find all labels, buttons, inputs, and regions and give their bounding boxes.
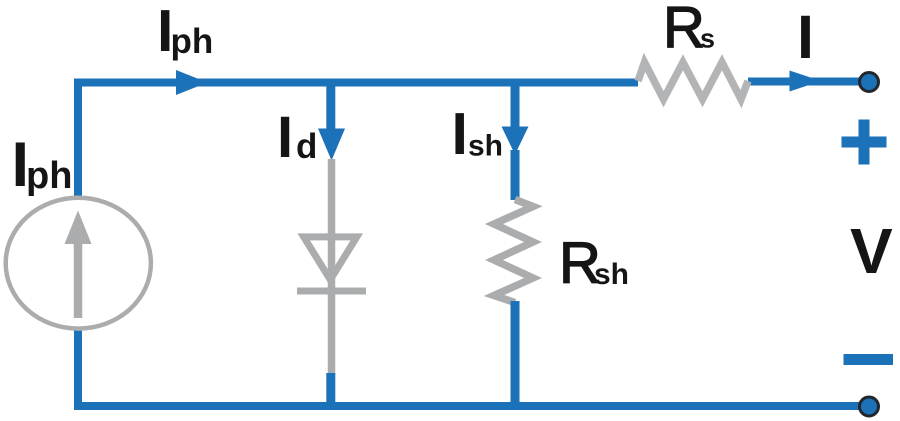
wire bottom bus — [74, 402, 866, 410]
diode D1 triangle — [304, 237, 357, 280]
svg-text:R: R — [663, 0, 705, 60]
arrow Ish on shunt branch — [502, 127, 529, 155]
wire top bus right segment — [748, 78, 866, 86]
terminal bottom negative — [860, 397, 879, 416]
terminal top positive — [860, 73, 879, 92]
svg-text:sh: sh — [594, 258, 629, 291]
label Iph left — [12, 130, 73, 200]
wire diode branch gray middle — [328, 159, 336, 375]
label Iph top — [157, 0, 213, 64]
arrow I output — [790, 71, 822, 92]
label Ish — [452, 101, 504, 167]
current source U1 arrow shaft — [74, 242, 83, 318]
plus sign — [842, 120, 887, 165]
wire shunt branch middle — [511, 150, 520, 200]
label Rsh — [559, 231, 629, 296]
minus sign — [844, 354, 894, 365]
svg-text:I: I — [277, 105, 293, 170]
svg-text:I: I — [452, 101, 468, 167]
arrow Iph on top bus — [176, 70, 208, 95]
current source U1 arrow head — [65, 211, 92, 245]
svg-text:ph: ph — [171, 22, 214, 61]
wire diode branch top — [326, 79, 335, 135]
svg-text:V: V — [850, 215, 893, 287]
wire top bus left segment — [74, 79, 638, 87]
resistor Rs zigzag — [638, 62, 748, 99]
label Rs — [663, 0, 715, 60]
svg-text:s: s — [700, 24, 715, 54]
resistor Rsh zigzag — [494, 200, 533, 303]
wire shunt branch top — [511, 79, 520, 132]
wire left branch lower — [74, 329, 82, 410]
label Id — [277, 105, 317, 170]
svg-text:d: d — [296, 127, 317, 166]
svg-text:ph: ph — [26, 155, 72, 197]
wire left branch upper — [74, 79, 82, 200]
svg-text:sh: sh — [468, 130, 503, 163]
wire diode branch bottom — [326, 373, 335, 406]
arrow Id on diode branch — [318, 129, 345, 161]
wire shunt branch bottom — [511, 301, 520, 410]
current source U1 circle — [6, 198, 151, 329]
diode D1 cathode bar — [297, 288, 366, 295]
svg-text:I: I — [797, 3, 814, 71]
